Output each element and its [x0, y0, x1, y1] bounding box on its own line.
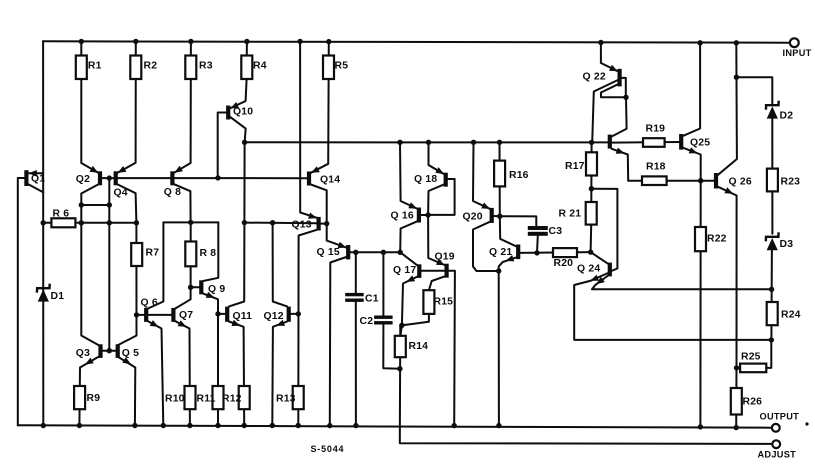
svg-text:Q4: Q4 — [114, 188, 128, 199]
svg-text:R24: R24 — [781, 310, 801, 321]
svg-text:R14: R14 — [409, 341, 429, 352]
svg-text:R16: R16 — [509, 170, 529, 181]
svg-text:C1: C1 — [365, 294, 379, 305]
svg-text:C2: C2 — [360, 316, 374, 327]
svg-text:R3: R3 — [199, 61, 213, 72]
svg-text:OUTPUT: OUTPUT — [760, 411, 800, 421]
svg-text:Q25: Q25 — [690, 137, 710, 148]
svg-text:R17: R17 — [565, 161, 585, 172]
svg-text:Q3: Q3 — [76, 348, 90, 359]
svg-text:R22: R22 — [707, 234, 727, 245]
svg-text:D2: D2 — [780, 110, 794, 121]
svg-text:Q7: Q7 — [179, 310, 193, 321]
svg-text:R26: R26 — [743, 397, 763, 408]
svg-text:Q19: Q19 — [435, 251, 455, 262]
svg-text:Q 15: Q 15 — [317, 247, 340, 258]
svg-text:Q 22: Q 22 — [583, 72, 606, 83]
svg-text:S-5044: S-5044 — [311, 444, 345, 454]
svg-text:Q 8: Q 8 — [164, 187, 181, 198]
svg-text:Q20: Q20 — [463, 211, 483, 222]
svg-text:R12: R12 — [222, 393, 242, 404]
svg-text:R23: R23 — [781, 177, 801, 188]
svg-text:Q 5: Q 5 — [122, 348, 139, 359]
svg-text:R1: R1 — [88, 61, 102, 72]
svg-text:R 21: R 21 — [559, 209, 582, 220]
svg-text:R10: R10 — [165, 393, 185, 404]
svg-text:Q 6: Q 6 — [141, 298, 158, 309]
svg-text:R7: R7 — [146, 248, 160, 259]
svg-text:R13: R13 — [276, 393, 296, 404]
svg-text:R11: R11 — [197, 393, 216, 404]
svg-text:ADJUST: ADJUST — [758, 449, 797, 459]
svg-text:R20: R20 — [554, 258, 574, 269]
svg-text:R9: R9 — [87, 393, 101, 404]
svg-text:Q11: Q11 — [233, 311, 253, 322]
svg-text:Q14: Q14 — [320, 174, 340, 185]
svg-text:R18: R18 — [646, 162, 666, 173]
svg-text:Q 21: Q 21 — [489, 247, 512, 258]
svg-text:R2: R2 — [144, 61, 158, 72]
svg-text:INPUT: INPUT — [783, 48, 812, 58]
svg-text:R 6: R 6 — [53, 209, 70, 220]
svg-text:R4: R4 — [253, 61, 267, 72]
svg-text:D3: D3 — [780, 239, 794, 250]
svg-text:Q 24: Q 24 — [577, 264, 600, 275]
svg-text:Q1: Q1 — [31, 174, 45, 185]
svg-text:R25: R25 — [741, 352, 761, 363]
svg-text:R19: R19 — [646, 124, 666, 135]
svg-text:C3: C3 — [549, 226, 563, 237]
svg-text:Q 17: Q 17 — [393, 265, 416, 276]
svg-text:Q 18: Q 18 — [414, 174, 437, 185]
svg-text:R5: R5 — [335, 61, 349, 72]
svg-text:Q 26: Q 26 — [729, 177, 752, 188]
svg-text:Q12: Q12 — [264, 311, 284, 322]
svg-text:D1: D1 — [51, 291, 65, 302]
svg-text:Q 16: Q 16 — [391, 211, 414, 222]
svg-text:Q13: Q13 — [292, 219, 312, 230]
svg-text:R 8: R 8 — [200, 248, 217, 259]
svg-text:Q10: Q10 — [233, 107, 253, 118]
svg-text:R15: R15 — [434, 297, 454, 308]
svg-text:Q 9: Q 9 — [208, 284, 225, 295]
svg-text:Q2: Q2 — [76, 174, 90, 185]
